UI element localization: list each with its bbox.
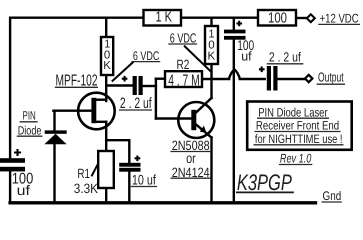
svg-text:6 VDC: 6 VDC [170,31,197,46]
svg-text:3.3K: 3.3K [74,181,98,196]
svg-text:10 uf: 10 uf [132,172,156,188]
svg-text:Rev 1.0: Rev 1.0 [280,152,311,166]
svg-text:Output: Output [318,70,344,85]
svg-text:K: K [208,50,216,62]
svg-text:R1: R1 [77,166,90,181]
svg-text:4 . 7 M: 4 . 7 M [168,73,200,90]
svg-text:2 . 2 uf: 2 . 2 uf [269,50,301,65]
svg-text:Diode: Diode [18,124,42,138]
svg-text:Gnd: Gnd [323,189,342,203]
svg-text:uf: uf [241,49,252,64]
svg-text:R2: R2 [177,57,190,72]
svg-text:100: 100 [268,10,287,26]
svg-text:uf: uf [17,182,30,198]
svg-text:K: K [103,60,111,72]
svg-text:+12 VDC: +12 VDC [320,11,359,25]
svg-text:PIN: PIN [23,108,36,122]
svg-text:K3PGP: K3PGP [237,170,292,195]
svg-text:or: or [186,150,196,166]
svg-text:1 K: 1 K [156,10,173,26]
svg-text:PIN Diode Laser: PIN Diode Laser [258,105,327,119]
svg-text:Receiver Front End: Receiver Front End [256,119,339,133]
svg-text:for NIGHTTIME use !: for NIGHTTIME use ! [255,132,343,146]
